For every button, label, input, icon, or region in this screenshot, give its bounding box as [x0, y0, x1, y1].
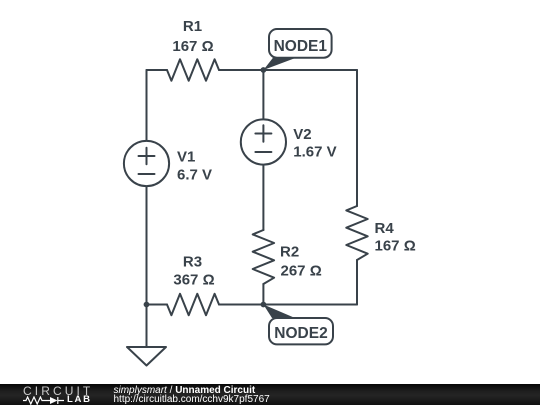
- junction dot left-bottom: [144, 302, 150, 308]
- wire left-vertical-top: [146, 70, 148, 141]
- svg-text:367 Ω: 367 Ω: [173, 272, 214, 289]
- svg-text:V1: V1: [177, 149, 195, 166]
- wire top R1-to-NODE1: [219, 69, 263, 71]
- wire right-vertical-lower: [356, 260, 358, 305]
- svg-text:6.7 V: 6.7 V: [177, 167, 212, 184]
- resistor R3: [167, 294, 219, 315]
- svg-text:NODE1: NODE1: [274, 38, 328, 55]
- wire V2-top-lead: [262, 70, 264, 119]
- wire bottom-left-lead: [147, 304, 168, 306]
- logo LAB text: [67, 395, 92, 404]
- voltage source V1: [124, 141, 169, 186]
- footer title text: [114, 386, 256, 396]
- svg-text:R2: R2: [280, 244, 299, 261]
- wire right-vertical-upper: [356, 70, 358, 206]
- label R3: [173, 254, 214, 289]
- logo CIRCUIT text: [23, 385, 93, 398]
- wire top-left-lead: [147, 69, 168, 71]
- footer bar: [0, 384, 540, 405]
- logo resistor-diode glyph: [23, 396, 67, 405]
- ground: [127, 305, 166, 366]
- svg-text:R1: R1: [183, 18, 202, 35]
- svg-text:R3: R3: [183, 254, 202, 271]
- svg-text:267 Ω: 267 Ω: [281, 263, 322, 280]
- svg-text:167 Ω: 167 Ω: [172, 38, 213, 55]
- resistor R1: [167, 59, 219, 80]
- svg-text:NODE2: NODE2: [274, 325, 327, 342]
- label V2: [293, 126, 336, 161]
- wire left-vertical-bottom: [146, 186, 148, 304]
- node NODE1: [261, 29, 332, 73]
- resistor R2: [253, 230, 274, 284]
- label R4: [375, 220, 416, 255]
- footer url text: [114, 395, 270, 405]
- wire top NODE1-to-corner: [263, 69, 357, 71]
- wire NODE2-to-R3: [219, 304, 263, 306]
- node NODE2: [261, 302, 334, 345]
- svg-text:1.67 V: 1.67 V: [293, 144, 336, 161]
- voltage source V2: [241, 119, 286, 164]
- svg-text:V2: V2: [293, 126, 311, 143]
- resistor R4: [346, 206, 367, 260]
- label R1: [172, 18, 213, 55]
- wire V2-to-R2: [262, 165, 264, 230]
- wire R2-to-NODE2: [262, 284, 264, 305]
- svg-text:167 Ω: 167 Ω: [375, 238, 416, 255]
- svg-text:R4: R4: [375, 220, 395, 237]
- label V1: [177, 149, 212, 184]
- wire bottom-right: [263, 304, 357, 306]
- label R2: [280, 244, 322, 280]
